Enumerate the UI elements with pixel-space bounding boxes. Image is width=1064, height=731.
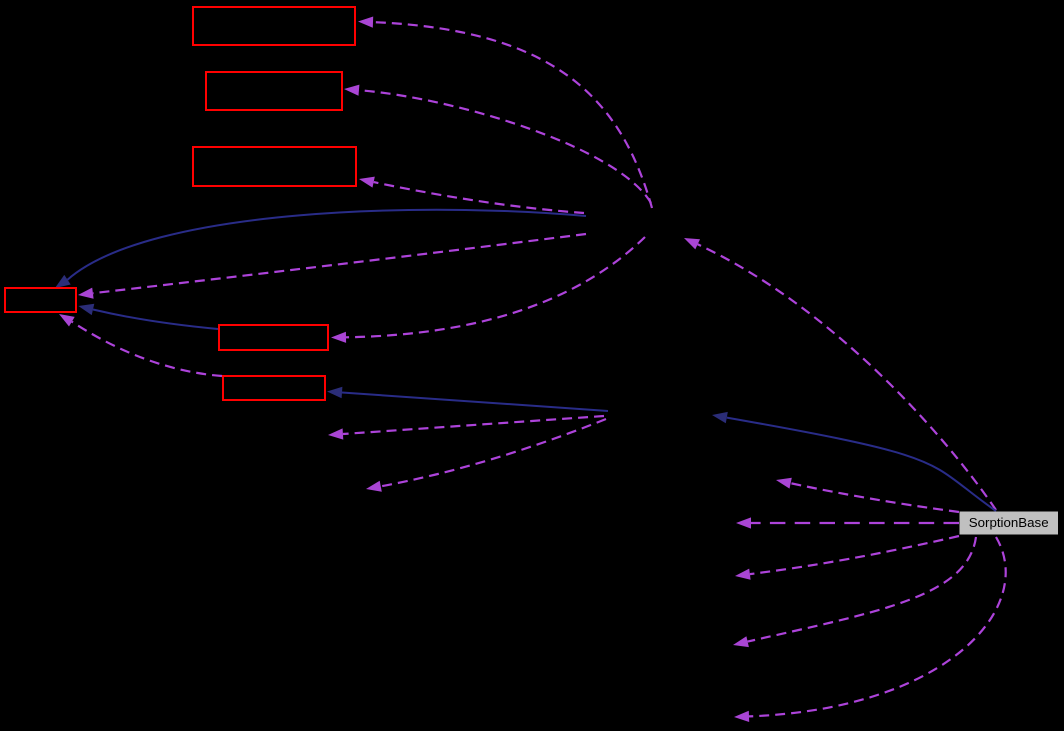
edge E14 solid box5->box4 right: [78, 304, 218, 329]
edge E3 dashed hub1->box3: [359, 177, 584, 213]
edge E10 dashed SorptionBase->hidden node: [733, 537, 976, 647]
node box4 (red box): [5, 288, 76, 312]
edge E11 dashed SorptionBase->hidden node: [734, 537, 1006, 722]
edge E17 dashed hub2->hidden node: [366, 419, 606, 492]
edge E13 dashed box6->box4 bottom: [59, 314, 222, 376]
edge E7 dashed SorptionBase->hub1: [684, 238, 996, 510]
edge E4 solid hub1->box4 top: [55, 210, 586, 288]
edge E12 solid SorptionBase->hub2: [712, 412, 996, 511]
edge E5 dashed hub1->box4 right: [78, 234, 586, 299]
node box2 (red box): [206, 72, 342, 110]
svg-text:SorptionBase: SorptionBase: [969, 515, 1049, 530]
edge E18 dashed SorptionBase->hidden node: [776, 478, 959, 512]
edge E2 dashed hub1->box2: [344, 85, 651, 203]
node SorptionBase (gray box): [960, 512, 1059, 535]
edge E8 dashed SorptionBase->hidden node: [736, 517, 959, 528]
edge E9 dashed SorptionBase->hidden node: [735, 536, 959, 580]
edge E6 dashed hub1->box5 right: [331, 237, 645, 343]
node box5 (red box): [219, 325, 328, 350]
node box3 (red box): [193, 147, 356, 186]
node box1 (red box): [193, 7, 355, 45]
edge E1 dashed hub1->box1: [358, 17, 652, 209]
edge E16 dashed hub2->hidden node: [328, 416, 604, 440]
node box6 (red box): [223, 376, 325, 400]
edge E15 solid hub2->box6 right: [327, 387, 608, 411]
